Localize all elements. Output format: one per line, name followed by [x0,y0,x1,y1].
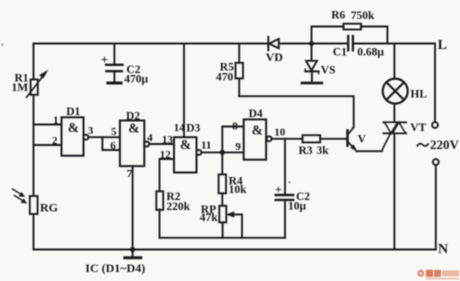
lamp HL [383,44,408,123]
svg-text:VT: VT [410,122,426,134]
zener VS [302,44,322,84]
terminal N [433,159,439,165]
diode VD [268,37,311,50]
wire R2/RP/C2 bottom net [160,237,286,239]
wire D1 pin1 [34,124,62,126]
wire bottom rail [34,249,436,251]
node D1 output bubble pin3 [83,135,88,140]
svg-text:14: 14 [174,122,186,134]
svg-text:47k: 47k [200,212,219,224]
svg-text:3: 3 [88,125,94,137]
wire D2 out to D3 pin13 [149,143,174,145]
svg-text:IC (D1~D4): IC (D1~D4) [85,261,145,275]
wire D2 pin7 to ground rail [132,166,134,249]
wire junction to D4 pin9 [222,151,243,153]
wire D4 out to R3 [271,138,302,140]
wire N terminal down to bottom rail [435,165,437,250]
svg-text:R3: R3 [299,145,313,157]
label ~220V [417,143,429,146]
transistor V [348,127,383,151]
svg-text:4: 4 [147,132,153,144]
svg-text:&: & [180,137,191,152]
capacitor C1 [312,36,436,50]
svg-text:D1: D1 [66,106,80,118]
svg-text:VD: VD [266,50,284,64]
triac VT [382,122,406,249]
svg-text:&: & [68,120,79,135]
resistor R1 [27,71,48,97]
svg-text:0.68μ: 0.68μ [357,47,384,59]
svg-text:8: 8 [232,120,238,132]
potentiometer RP [219,206,242,238]
wire D1 pin2 [34,144,62,146]
svg-text:L: L [438,38,447,53]
svg-text:D3: D3 [186,123,200,135]
svg-text:3k: 3k [317,145,330,157]
node junction D3out/R4/D4 [220,150,225,155]
svg-text:&: & [128,120,139,135]
svg-text:1: 1 [53,115,59,127]
gate D3 [174,137,197,172]
resistor R4 [219,152,226,205]
svg-text:V: V [358,134,367,146]
wire R5 bottom to transistor collector [239,96,354,127]
wire D2 pin6 loop [102,137,120,150]
svg-text:7: 7 [127,168,133,180]
scan speck [2,44,4,46]
photoresistor RG [13,189,38,214]
svg-text:RG: RG [40,200,58,214]
svg-text:VS: VS [321,64,336,76]
watermark logo [417,270,459,280]
svg-text:1M: 1M [12,82,29,94]
svg-text:N: N [438,242,448,257]
resistor R5 [236,44,244,97]
gate D4 [244,119,266,159]
wire top rail left segment [34,43,269,45]
capacitor C2 10u [276,139,294,238]
svg-text:11: 11 [201,140,211,152]
node D3 output bubble pin11 [196,150,201,155]
resistor R6 [312,24,388,44]
node D4 output bubble pin10 [267,136,272,141]
terminal L [432,122,438,128]
wire junction to D4 pin8 [222,127,243,153]
node D2 output bubble pin4 [144,142,149,147]
gate D2 [120,121,144,167]
wire L line down to terminal [434,44,436,123]
svg-text:HL: HL [410,88,427,100]
svg-text:470: 470 [216,72,234,84]
svg-text:5: 5 [111,126,117,138]
svg-text:C1: C1 [333,46,347,58]
svg-text:470μ: 470μ [124,73,148,85]
svg-text:R6: R6 [331,9,345,21]
svg-text:2: 2 [52,135,58,147]
resistor R3 [303,135,348,142]
svg-text:D4: D4 [249,108,263,120]
svg-text:&: & [252,123,263,138]
wire D3 pin14 from top rail [183,44,185,138]
capacitor C2 470u [106,44,122,84]
wire D3 pin12 to R2 [160,159,175,192]
svg-text:12: 12 [160,149,172,161]
svg-text:+: + [101,52,108,67]
svg-text:13: 13 [162,134,174,146]
wire D3 out to junction [201,151,222,153]
svg-text:10: 10 [274,126,286,138]
gate D1 [62,117,84,155]
svg-text:10μ: 10μ [288,201,307,213]
svg-text:+: + [275,182,282,196]
wire D1 out to D2 pin5 [88,136,120,138]
svg-text:9: 9 [235,141,241,153]
node VD/VS/R6 junction [309,41,314,46]
svg-text:220V: 220V [430,137,460,152]
svg-text:6: 6 [110,140,116,152]
wire left rail [33,44,35,250]
svg-text:10k: 10k [229,184,248,196]
scan speck [289,181,291,183]
resistor R2 [156,191,163,238]
svg-text:220k: 220k [166,201,190,213]
svg-text:750k: 750k [351,10,375,22]
ground IC common [125,247,141,258]
